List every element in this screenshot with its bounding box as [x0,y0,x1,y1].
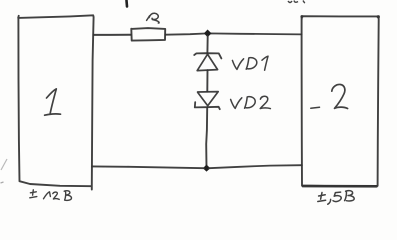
node A (junction of resistor wire and diode branch) [205,30,211,36]
wire: block 1 to node B (bottom rail left) [92,166,204,168]
wire: node A down to VD1 [206,36,208,53]
label 2 (block 2 designator) [311,84,348,108]
node B (junction of diode branch and bottom wire) [204,165,210,171]
label ±5 В under block 2 [318,191,354,205]
wire: VD1 to VD2 [206,70,208,91]
background smudges (unlabeled, decorative) [1,1,306,184]
wire: VD2 down to node B [206,108,207,168]
label ±12 В under block 1 [30,190,72,201]
zener diode VD1 [194,53,221,70]
label VD2 [231,96,271,108]
resistor R [131,28,165,40]
label 1 (block 1 designator) [45,89,61,115]
label VD1 [232,56,268,70]
wire: node B to block 2 (bottom rail right) [209,165,302,168]
block 1 [18,15,93,189]
wire: block 1 to resistor [94,34,131,36]
label R [147,13,159,23]
zener diode VD2 [195,92,220,110]
wire: resistor to block 2 [165,33,301,34]
block 2 [300,15,380,186]
